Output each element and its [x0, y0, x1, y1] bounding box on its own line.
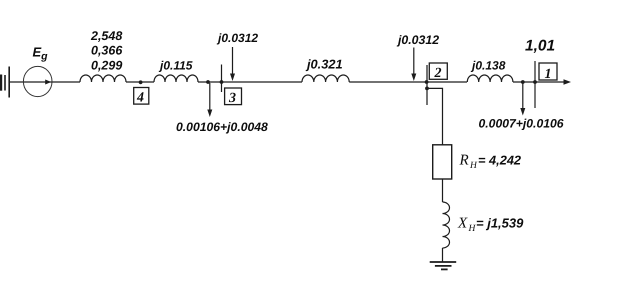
wire — [198, 81, 302, 83]
svg-text:3: 3 — [228, 91, 236, 106]
bus box 3 — [225, 88, 242, 105]
wire — [10, 81, 80, 83]
svg-text:0,366: 0,366 — [91, 44, 123, 58]
ground — [430, 262, 457, 269]
svg-text:j0.138: j0.138 — [470, 59, 506, 73]
node 2 bus tick — [426, 65, 428, 105]
inductor coil j0.138 — [467, 75, 513, 82]
bus box 1 — [539, 63, 557, 80]
svg-text:4: 4 — [136, 91, 144, 106]
source terminal bars (left edge) — [0, 67, 9, 98]
svg-text:= 4,242: = 4,242 — [478, 153, 521, 168]
node 3 junction dot — [206, 80, 210, 84]
node 4 dot — [139, 80, 143, 84]
node 3 load arrow down — [209, 83, 211, 112]
svg-text:j0.321: j0.321 — [305, 57, 343, 72]
svg-text:H: H — [469, 161, 478, 171]
right end arrowhead — [564, 79, 572, 84]
wire — [513, 81, 565, 83]
wire — [442, 248, 444, 262]
node 2 injection arrow (j0.0312) — [413, 48, 415, 77]
svg-text:0.00106+j0.0048: 0.00106+j0.0048 — [176, 120, 268, 134]
node 3 bus tick — [221, 65, 223, 93]
inductor coil j0.321 — [302, 75, 349, 82]
node 3 injection arrow (j0.0312) — [232, 47, 234, 76]
inductor coil (2,548/0,366/0,299) — [80, 75, 126, 82]
svg-text:R: R — [459, 153, 469, 169]
node 1 bus tick — [534, 61, 536, 108]
generator Eg circle — [23, 66, 52, 96]
svg-text:1,01: 1,01 — [525, 38, 555, 55]
arrowhead inside generator — [45, 80, 51, 85]
svg-text:X: X — [457, 216, 468, 232]
load branch wire — [427, 88, 443, 144]
wire — [442, 179, 444, 202]
svg-text:0.0007+j0.0106: 0.0007+j0.0106 — [479, 117, 564, 131]
svg-text:0,299: 0,299 — [91, 59, 122, 73]
svg-text:2,548: 2,548 — [90, 29, 122, 43]
node 1 load arrow down — [522, 83, 524, 111]
node 1 junction dot — [521, 80, 525, 84]
svg-text:1: 1 — [545, 67, 552, 82]
wire — [349, 81, 467, 83]
bus box 2 — [429, 63, 447, 79]
inductor XH (vertical) — [443, 202, 450, 248]
svg-text:j0.0312: j0.0312 — [396, 33, 439, 47]
inductor coil j0.115 — [154, 75, 198, 82]
resistor RH — [433, 145, 452, 179]
bus box 4 — [134, 88, 149, 105]
svg-text:= j1,539: = j1,539 — [476, 216, 524, 231]
wire — [126, 81, 154, 83]
svg-text:j0.115: j0.115 — [158, 59, 193, 73]
svg-text:j0.0312: j0.0312 — [216, 31, 258, 45]
svg-text:2: 2 — [434, 66, 442, 81]
